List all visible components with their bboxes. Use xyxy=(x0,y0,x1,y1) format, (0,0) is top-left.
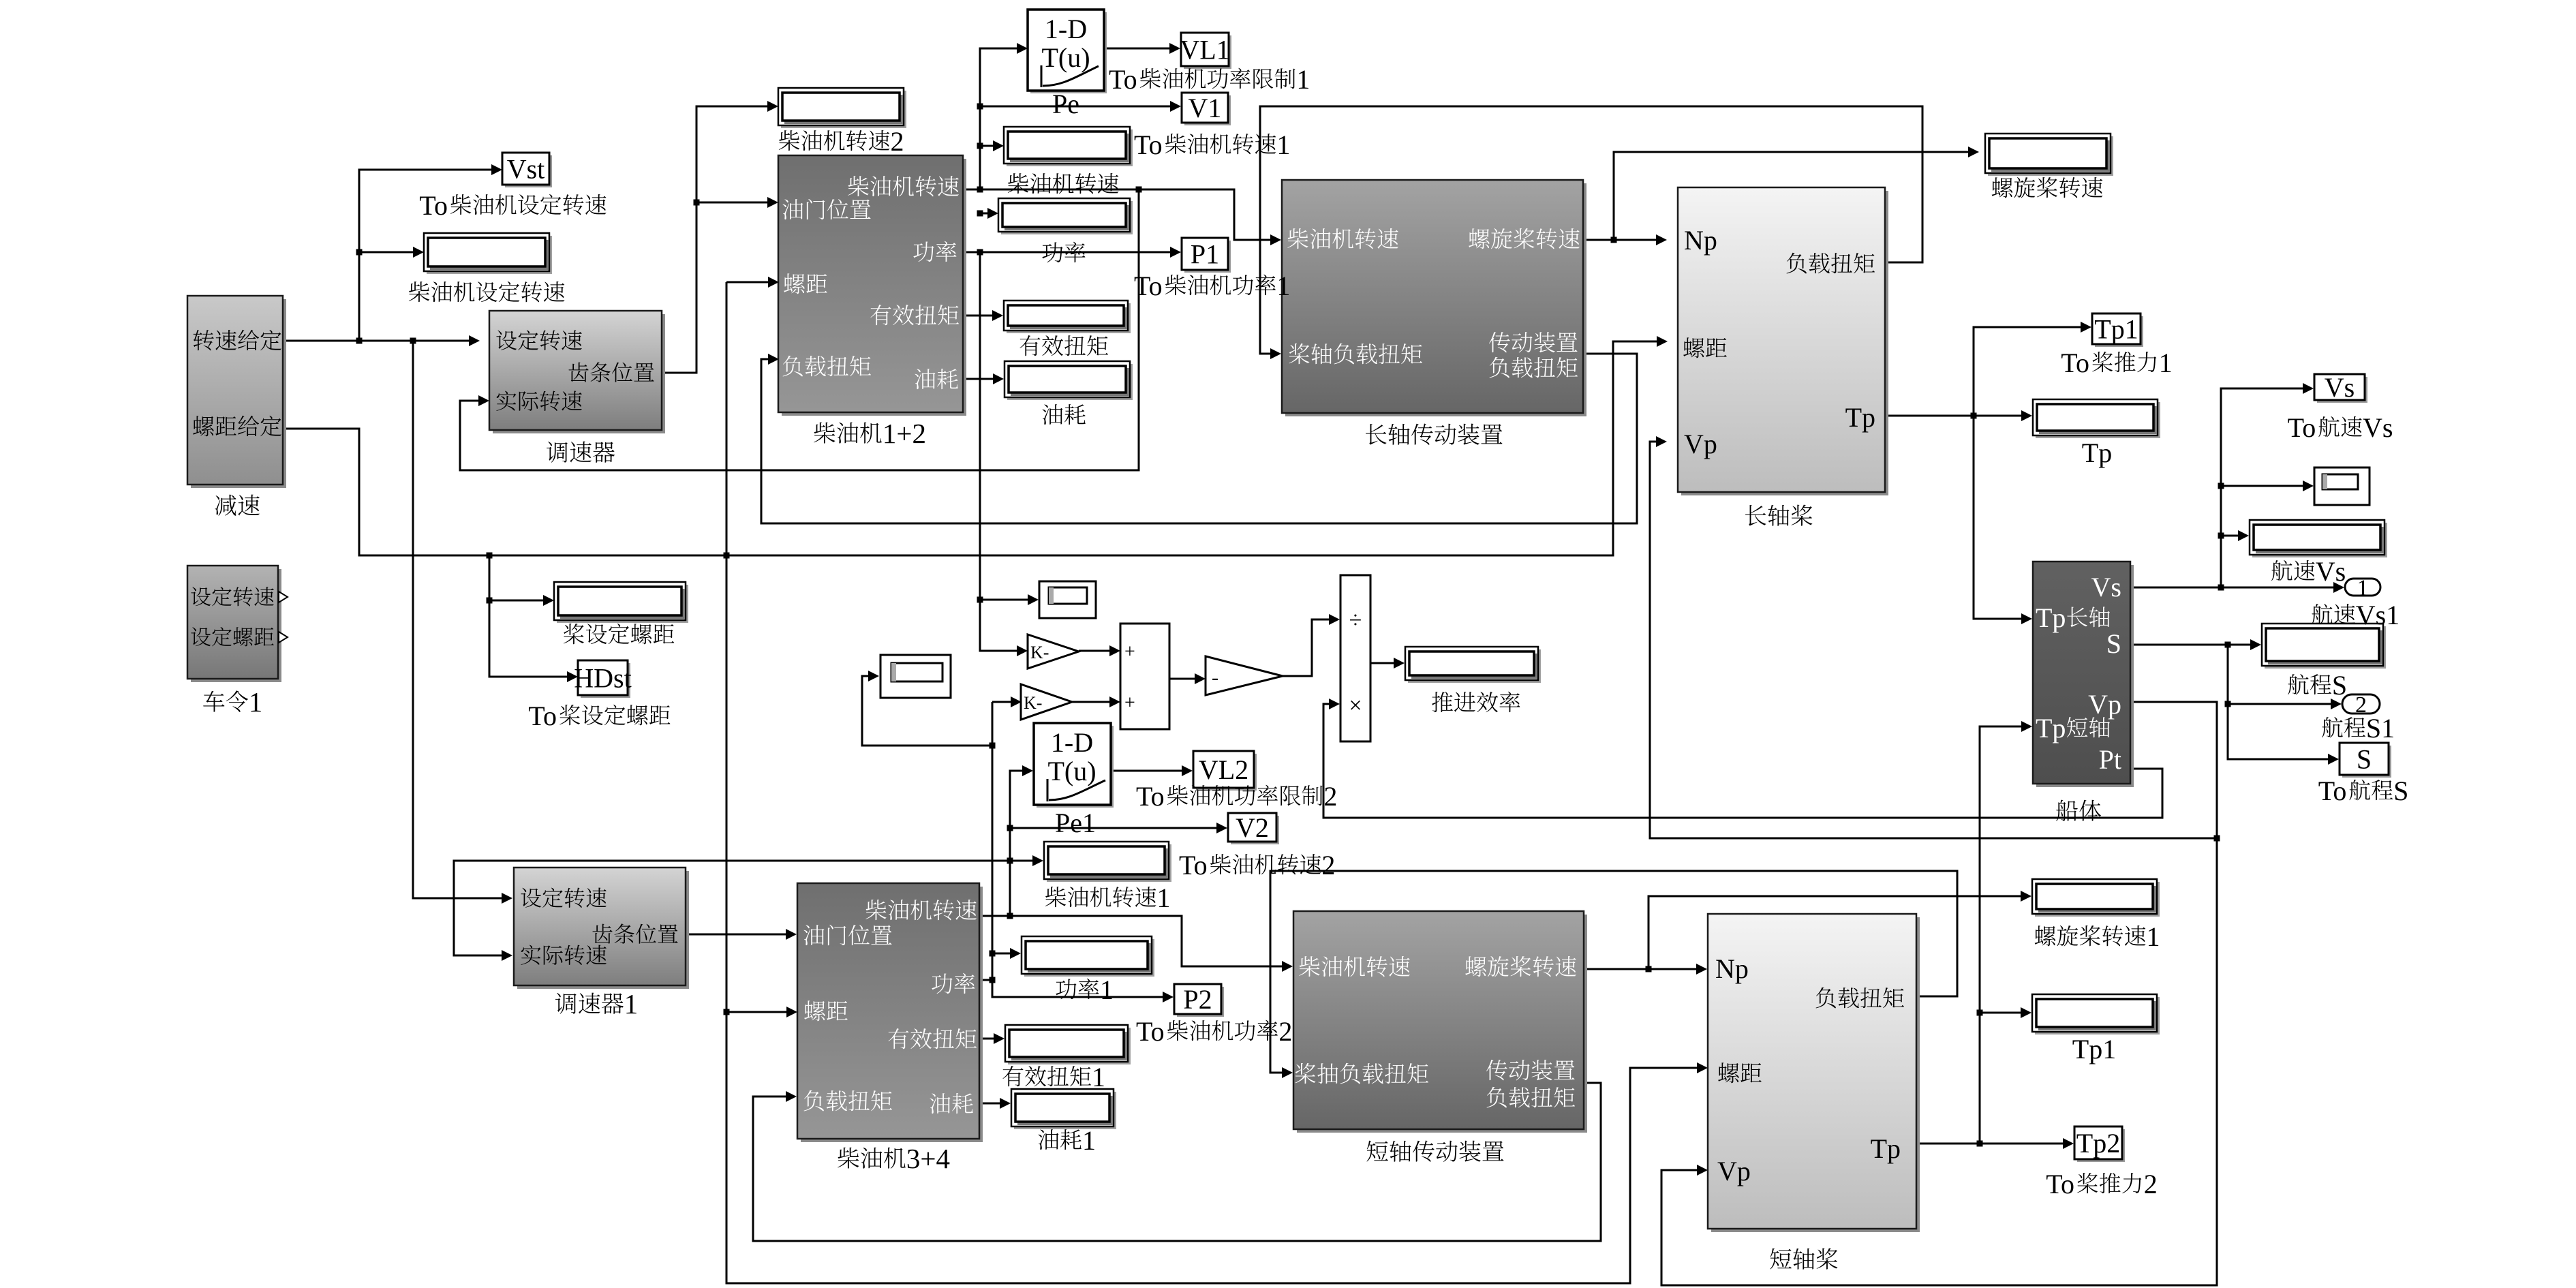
display 有效扭矩 xyxy=(1007,303,1131,333)
goto P1 xyxy=(1184,241,1231,273)
label To柴油机设定转速 xyxy=(419,190,606,221)
gain K-2 xyxy=(1021,684,1072,720)
svg-text:S: S xyxy=(2332,670,2347,701)
wire 转速给定 to 调速器.设定转速 xyxy=(283,340,469,342)
svg-text:2: 2 xyxy=(2144,1169,2158,1199)
svg-text:Np: Np xyxy=(1715,953,1749,984)
wire 柴油机1+2.柴油机转速 to 长轴传动装置 xyxy=(963,189,1270,240)
label 柴油机转速2 xyxy=(779,126,904,157)
svg-text:1: 1 xyxy=(1100,975,1114,1005)
label 有效扭矩1 xyxy=(1002,1062,1105,1092)
svg-text:S1: S1 xyxy=(2366,713,2395,743)
svg-text:Vs: Vs xyxy=(2091,572,2121,602)
wire branch to Tp1 goto xyxy=(1974,327,2081,416)
node junction xyxy=(977,143,983,149)
node junction xyxy=(1977,1141,1983,1147)
svg-text:1: 1 xyxy=(2159,348,2173,378)
goto V2 xyxy=(1231,816,1279,844)
node junction xyxy=(2218,533,2224,539)
wire 螺距 to 柴油机1+2.螺距 xyxy=(726,281,768,283)
svg-text:T(u): T(u) xyxy=(1041,42,1090,73)
node junction xyxy=(487,553,493,559)
outport 2 航程S1 xyxy=(2342,694,2380,714)
block 短轴桨 (subsystem) xyxy=(1711,917,1920,1232)
svg-text:V1: V1 xyxy=(1189,93,1222,123)
wire 齿条位置 to 柴油机1+2.油门位置 xyxy=(696,202,767,204)
goto VL1 xyxy=(1184,35,1231,69)
port 车令1 out2 xyxy=(279,632,288,643)
svg-text:S: S xyxy=(2357,744,2372,775)
svg-text:To: To xyxy=(1134,129,1163,160)
svg-text:Tp1: Tp1 xyxy=(2094,314,2138,345)
label 航速Vs1 xyxy=(2312,600,2399,630)
label 螺旋桨转速 xyxy=(1992,177,2103,198)
block 调速器 (subsystem) xyxy=(493,314,665,433)
wire 短轴桨.Tp to Tp2 goto xyxy=(1916,1143,2063,1145)
svg-text:1: 1 xyxy=(1092,1062,1105,1092)
label 柴油机转速 xyxy=(1008,173,1119,194)
svg-text:1: 1 xyxy=(1157,883,1171,913)
wire Pe1 to V2 xyxy=(1010,827,1216,829)
label 桨设定螺距 xyxy=(564,624,674,644)
wire to 柴油机转速1 display xyxy=(1010,860,1032,862)
wire speed column up to 1-D lookup2 xyxy=(1010,771,1022,916)
display small C xyxy=(2314,467,2370,505)
label To柴油机转速1 xyxy=(1134,129,1290,160)
gain K-1 xyxy=(1028,634,1079,669)
label 调速器1 xyxy=(555,988,638,1019)
label 推进效率 xyxy=(1432,692,1520,712)
display 航速Vs xyxy=(2252,523,2387,557)
wire branch to HDst xyxy=(489,600,567,677)
block 长轴传动装置 (subsystem) xyxy=(1285,183,1586,416)
svg-text:1: 1 xyxy=(1296,64,1310,95)
svg-text:To: To xyxy=(1179,850,1208,880)
svg-text:K-: K- xyxy=(1024,693,1042,713)
wire 船体.Vs to outport 1 xyxy=(2130,587,2333,589)
goto P2 xyxy=(1177,987,1224,1017)
label To柴油机功率2 xyxy=(1136,1016,1292,1047)
wire divide to 推进效率 display xyxy=(1370,662,1394,664)
wire 有效扭矩 to display xyxy=(963,315,992,317)
wire 螺旋桨转速 to 短轴桨.Np xyxy=(1584,968,1696,970)
wire 螺距 column to 短轴桨.螺距 xyxy=(726,282,1697,1283)
node junction xyxy=(977,211,983,217)
wire branch to Vs goto xyxy=(2221,388,2303,587)
svg-text:1: 1 xyxy=(2147,921,2160,952)
label 航程S1 xyxy=(2322,713,2395,743)
svg-text:2: 2 xyxy=(891,126,904,157)
label 功率1 xyxy=(1056,975,1114,1005)
svg-text:2: 2 xyxy=(1278,1016,1292,1047)
label 船体 xyxy=(2056,800,2101,821)
svg-text:To: To xyxy=(419,190,448,221)
block 柴油机3+4 (subsystem) xyxy=(801,887,983,1142)
node junction xyxy=(487,598,493,604)
svg-text:+: + xyxy=(1124,692,1135,714)
label To桨设定螺距 xyxy=(528,701,670,731)
svg-text:To: To xyxy=(2318,776,2347,806)
node junction xyxy=(694,200,700,206)
goto VL2 xyxy=(1196,754,1257,791)
svg-text:1: 1 xyxy=(624,988,639,1019)
wire 传动装置负载扭矩 feedback to 柴油机3+4.负载扭矩 xyxy=(753,1083,1601,1241)
svg-text:Vs: Vs xyxy=(2325,372,2355,403)
wire branch to 船体.Tp长轴 xyxy=(1974,416,2021,619)
label Pe xyxy=(1052,89,1079,119)
display 柴油机设定转速 xyxy=(427,236,552,274)
display small B xyxy=(880,655,951,698)
node junction xyxy=(1007,913,1013,919)
display 柴油机转速1 xyxy=(1047,844,1171,882)
svg-text:VL1: VL1 xyxy=(1180,35,1229,65)
wire 油耗 to display xyxy=(963,378,993,380)
svg-text:Vst: Vst xyxy=(507,154,545,185)
label 长轴传动装置 xyxy=(1366,424,1503,445)
svg-text:P1: P1 xyxy=(1191,239,1219,270)
svg-text:S: S xyxy=(2393,776,2408,806)
label To航程S xyxy=(2318,776,2409,806)
wire 长轴桨.Tp to Tp display xyxy=(1885,415,2021,417)
label 减速 xyxy=(215,495,260,516)
svg-text:To: To xyxy=(2061,348,2089,378)
label 功率 xyxy=(1042,242,1085,262)
block 减速 (subsystem) xyxy=(191,299,286,488)
node junction xyxy=(724,553,730,559)
svg-text:Vp: Vp xyxy=(2088,689,2121,720)
display 航程S xyxy=(2265,626,2386,669)
label To柴油机功率1 xyxy=(1134,271,1290,301)
label 柴油机设定转速 xyxy=(409,281,565,302)
goto Vst xyxy=(505,155,552,187)
svg-text:2: 2 xyxy=(1321,850,1335,880)
goto S xyxy=(2342,746,2391,778)
node junction xyxy=(1977,1010,1983,1016)
wire to display A xyxy=(980,599,1028,601)
label 柴油机转速1 xyxy=(1045,883,1171,913)
wire 齿条位置 to 柴油机转速2 display xyxy=(662,106,767,373)
label 油耗1 xyxy=(1038,1125,1096,1156)
wire branch to scope display xyxy=(2221,485,2303,487)
display 柴油机转速 xyxy=(1007,129,1133,166)
node junction xyxy=(1007,858,1013,864)
svg-text:Tp: Tp xyxy=(1871,1133,1901,1164)
wire 长轴桨.负载扭矩 feedback to 桨轴负载扭矩 xyxy=(1260,106,1922,354)
block 调速器1 (subsystem) xyxy=(517,871,689,989)
svg-text:S: S xyxy=(2106,628,2121,659)
node junction xyxy=(2225,642,2231,648)
display Tp xyxy=(2036,402,2160,438)
svg-text:Np: Np xyxy=(1684,225,1717,256)
wire 齿条位置1 to 柴油机3+4.油门位置 xyxy=(686,934,786,936)
node junction xyxy=(977,249,983,256)
wire Pe to V1 xyxy=(980,106,1170,108)
wire 船体.Pt to divide x input xyxy=(1323,704,2162,818)
display Tp1 xyxy=(2035,997,2160,1034)
display 有效扭矩1 xyxy=(1008,1028,1131,1064)
port 车令1 out1 xyxy=(279,592,288,602)
label 油耗 xyxy=(1042,404,1085,425)
goto Tp1 xyxy=(2095,316,2143,347)
svg-text:Vs: Vs xyxy=(2363,412,2393,443)
wire subtract to divide input xyxy=(1283,619,1329,676)
wire column down xyxy=(979,252,981,600)
display 油耗1 xyxy=(1014,1092,1116,1129)
subtract gain triangle xyxy=(1206,656,1283,695)
svg-text:Vs: Vs xyxy=(2316,556,2346,587)
display 柴油机转速2 xyxy=(781,91,906,128)
goto HDst xyxy=(581,663,630,698)
svg-text:To: To xyxy=(1136,781,1165,812)
block 车令1 (subsystem) xyxy=(191,569,281,682)
block 1-D lookup T(u) 2 xyxy=(1037,726,1114,808)
node junction xyxy=(2218,483,2224,489)
label Tp1 xyxy=(2072,1034,2116,1064)
node junction xyxy=(2214,835,2220,842)
label To柴油机功率限制1 xyxy=(1109,64,1310,95)
svg-text:Pe1: Pe1 xyxy=(1055,808,1096,838)
wire branch to Tp1 display xyxy=(1980,1013,2021,1144)
svg-text:T(u): T(u) xyxy=(1047,756,1096,786)
label 短轴传动装置 xyxy=(1366,1141,1503,1162)
wire gain2 to sum xyxy=(1072,701,1109,703)
label To桨推力2 xyxy=(2046,1169,2157,1199)
goto Vs xyxy=(2317,377,2367,403)
svg-text:Tp: Tp xyxy=(2036,713,2066,743)
wire branch to display B xyxy=(862,676,992,746)
wire branch to outport 2 xyxy=(2228,645,2331,704)
wire 转速给定 to 调速器1.设定转速 xyxy=(413,341,502,898)
svg-text:V2: V2 xyxy=(1236,812,1269,843)
wire 螺距给定 distribution to 长轴桨.螺距 xyxy=(283,341,1657,555)
label 有效扭矩 xyxy=(1019,335,1108,356)
node junction xyxy=(2225,701,2231,707)
node junction xyxy=(1611,237,1617,243)
wire 1-D2 to VL2 xyxy=(1111,770,1182,772)
wire 功率 column to P2 xyxy=(992,702,1163,997)
block 船体 (subsystem) xyxy=(2036,565,2134,787)
svg-text:Tp1: Tp1 xyxy=(2072,1034,2116,1064)
label To柴油机功率限制2 xyxy=(1136,781,1337,812)
label 车令1 xyxy=(203,686,262,718)
wire branch to 螺旋桨转速1 display xyxy=(1649,896,2021,969)
wire 短轴桨.负载扭矩 feedback to 桨抽负载扭矩 xyxy=(1270,871,1957,1073)
wire branch to 桨设定螺距 display xyxy=(489,555,543,600)
wire Vp to 短轴桨.Vp xyxy=(1661,838,2217,1285)
label To柴油机转速2 xyxy=(1179,850,1335,880)
node junction xyxy=(1971,413,1977,419)
wire gain1 to sum xyxy=(1079,650,1109,652)
svg-text:Tp: Tp xyxy=(1845,402,1875,433)
goto V1 xyxy=(1184,95,1231,125)
display 推进效率 xyxy=(1408,649,1541,683)
wire branch to S goto xyxy=(2228,704,2328,759)
display 功率 xyxy=(1001,201,1133,234)
svg-text:To: To xyxy=(2046,1169,2074,1199)
display 功率1 xyxy=(1024,939,1154,977)
svg-text:1: 1 xyxy=(2357,576,2369,601)
divide block xyxy=(1340,575,1370,741)
label Pe1 xyxy=(1055,808,1096,838)
svg-text:HDst: HDst xyxy=(574,663,631,694)
block 柴油机1+2 (subsystem) xyxy=(782,159,966,416)
svg-text:×: × xyxy=(1349,693,1362,718)
wire 船体.Vp to 长轴桨.Vp xyxy=(1650,442,2217,838)
wire 功率 to P1 xyxy=(963,251,1170,254)
label 柴油机3+4 xyxy=(838,1143,950,1174)
display 螺旋桨转速1 xyxy=(2035,882,2160,917)
node junction xyxy=(990,977,996,983)
wire to 功率 display xyxy=(980,213,987,215)
svg-text:1: 1 xyxy=(1082,1125,1096,1156)
label 航速Vs xyxy=(2271,556,2346,587)
label 长轴桨 xyxy=(1745,505,1812,526)
svg-text:To: To xyxy=(2288,412,2316,443)
svg-text:3+4: 3+4 xyxy=(906,1143,950,1174)
label To航速Vs xyxy=(2288,412,2393,443)
node junction xyxy=(1646,966,1652,972)
svg-text:P2: P2 xyxy=(1183,984,1212,1015)
svg-text:Tp: Tp xyxy=(2036,602,2066,633)
wire 功率 column to gain2 xyxy=(992,701,1011,703)
label To桨推力1 xyxy=(2061,348,2172,378)
display 螺旋桨转速 xyxy=(1988,136,2113,176)
wire branch to Vst xyxy=(359,170,491,341)
node junction xyxy=(2218,585,2224,591)
node junction xyxy=(977,104,983,110)
wire 螺旋桨转速 to 长轴桨.Np xyxy=(1583,239,1656,241)
svg-text:Vp: Vp xyxy=(1684,429,1717,459)
svg-text:1: 1 xyxy=(249,686,263,718)
label 螺旋桨转速1 xyxy=(2035,921,2160,952)
wire to gain1 xyxy=(980,600,1017,651)
svg-text:1-D: 1-D xyxy=(1051,727,1093,758)
wire sum to subtract xyxy=(1169,678,1195,680)
label 航程S xyxy=(2288,670,2347,701)
display 桨设定螺距 xyxy=(557,585,688,623)
display 油耗 xyxy=(1007,364,1133,400)
node junction xyxy=(990,951,996,957)
svg-text:Vp: Vp xyxy=(1717,1156,1751,1186)
goto Tp2 xyxy=(2077,1129,2125,1162)
wire branch to 航速Vs display xyxy=(2221,535,2238,537)
node junction xyxy=(356,338,363,344)
wire 螺距 to 柴油机3+4.螺距 xyxy=(726,1011,786,1013)
wire 功率 port stub xyxy=(979,979,992,981)
node junction xyxy=(356,249,363,256)
node junction xyxy=(724,1009,730,1015)
svg-text:1: 1 xyxy=(1276,129,1290,160)
node junction xyxy=(977,597,983,603)
wire 有效扭矩1 to display xyxy=(979,1038,994,1040)
svg-text:Pt: Pt xyxy=(2099,744,2121,775)
node junction xyxy=(1136,187,1142,193)
label 调速器 xyxy=(547,442,615,463)
block 长轴桨 (subsystem) xyxy=(1681,191,1888,495)
wire speed column up to 1-D lookup xyxy=(980,48,1017,189)
wire 柴油机转速 feedback to 调速器.实际转速 xyxy=(460,189,1139,470)
label 短轴桨 xyxy=(1770,1248,1837,1270)
wire feedback to 调速器1.实际转速 xyxy=(454,861,1010,955)
svg-text:+: + xyxy=(1124,641,1135,662)
wire branch to 螺旋桨转速 display xyxy=(1614,152,1968,240)
node junction xyxy=(977,187,983,193)
wire branch to 功率1 display xyxy=(992,953,1010,955)
svg-text:K-: K- xyxy=(1030,643,1049,662)
svg-text:-: - xyxy=(1212,666,1218,689)
outport 1 航速Vs1 xyxy=(2345,579,2380,596)
display small A xyxy=(1039,581,1096,618)
wire 传动装置负载扭矩 feedback to 柴油机1+2.负载扭矩 xyxy=(761,354,1637,523)
wire 1-D to VL1 xyxy=(1104,48,1169,50)
block 短轴传动装置 (subsystem) xyxy=(1297,915,1587,1133)
svg-text:1: 1 xyxy=(1276,271,1290,301)
svg-text:Vs1: Vs1 xyxy=(2356,600,2399,630)
node junction xyxy=(990,743,996,749)
wire to 柴油机转速 display xyxy=(980,145,993,147)
svg-text:To: To xyxy=(1134,271,1163,301)
sum block xyxy=(1120,624,1169,729)
node junction xyxy=(410,338,416,344)
svg-text:VL2: VL2 xyxy=(1199,754,1248,785)
node junction xyxy=(1007,825,1013,831)
svg-text:1-D: 1-D xyxy=(1045,14,1087,44)
svg-text:1+2: 1+2 xyxy=(883,418,926,449)
svg-text:Tp2: Tp2 xyxy=(2076,1128,2120,1159)
svg-text:2: 2 xyxy=(1323,781,1337,812)
wire 油耗1 to display xyxy=(979,1103,1000,1105)
svg-text:To: To xyxy=(528,701,557,731)
wire branch to 柴油机设定转速 display xyxy=(359,251,413,254)
wire branch to 船体.Tp短轴 xyxy=(1980,726,2021,1013)
svg-text:÷: ÷ xyxy=(1349,608,1362,633)
wire 柴油机3+4.柴油机转速 to 短轴传动装置 xyxy=(979,916,1282,966)
label Tp xyxy=(2082,438,2112,468)
svg-text:To: To xyxy=(1136,1016,1165,1047)
svg-text:Tp: Tp xyxy=(2082,438,2112,468)
label 柴油机1+2 xyxy=(814,418,926,449)
svg-text:To: To xyxy=(1109,64,1137,95)
block 1-D lookup T(u) xyxy=(1030,12,1107,93)
wire 船体.S to 航程S display xyxy=(2130,644,2250,646)
svg-text:2: 2 xyxy=(2355,692,2367,718)
